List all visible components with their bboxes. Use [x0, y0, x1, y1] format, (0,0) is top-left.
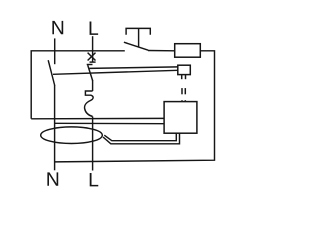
wire relay to left edge — [31, 117, 164, 119]
wire N conductor to bottom — [54, 85, 56, 170]
wire L supply lead — [92, 36, 94, 62]
relay top pin 1 — [181, 100, 183, 101]
wire L conductor upper — [92, 80, 94, 91]
test switch blade — [124, 42, 148, 50]
sensing unit pin 1 — [181, 75, 183, 80]
switch blade N pole — [48, 60, 55, 85]
toroidal current transformer core — [41, 127, 103, 144]
sensing unit terminal box — [178, 65, 191, 74]
resistor R test — [175, 44, 201, 58]
wire test switch to resistor — [148, 50, 175, 52]
wire N supply lead — [54, 38, 56, 64]
breaker contact cross X (L pole) — [88, 53, 96, 61]
wire L conductor to bottom — [92, 117, 94, 171]
switch blade L pole — [88, 65, 93, 80]
label L (bottom) — [90, 173, 99, 186]
test button stem — [138, 28, 140, 46]
label N (bottom) — [47, 172, 58, 185]
secondary winding wire upper — [104, 133, 176, 141]
label N (top) — [52, 21, 63, 34]
moving contact tick L pole — [87, 64, 93, 66]
secondary winding wire lower — [103, 133, 180, 144]
relay unit box U1 — [164, 102, 197, 134]
wire resistor to right bus — [55, 51, 215, 162]
wire A: L pole to sensing unit — [89, 67, 178, 69]
wire top bus from left edge to test contact — [31, 51, 125, 119]
dashed link segment 2 — [184, 88, 186, 94]
trip linkage squiggle on L conductor — [85, 91, 94, 117]
relay top pin 2 — [184, 100, 186, 101]
test button actuator bar — [126, 28, 150, 34]
fixed contact tick L pole — [90, 61, 96, 63]
sensing unit pin 2 — [185, 75, 187, 80]
wire relay to N conductor — [55, 122, 165, 124]
wire B: N pole to sensing unit — [53, 70, 178, 74]
label L (top) — [90, 22, 99, 35]
dashed link segment 1 — [181, 88, 183, 94]
